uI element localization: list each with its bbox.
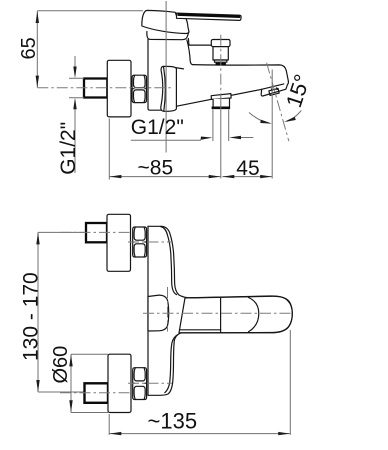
svg-text:~85: ~85 [138, 157, 174, 180]
body left edge (plan) [147, 226, 149, 395]
deck fill under knob [189, 45, 212, 65]
shoulder line at spout root [175, 68, 184, 69]
central boss (plan) [148, 295, 169, 331]
boss vertical centerline [167, 287, 169, 332]
pipe nipple (top view) [84, 79, 107, 98]
centerline bottom nipple axis [60, 392, 132, 394]
spout end face bottom / chin [261, 81, 288, 96]
step from handle corner to deck [187, 39, 190, 45]
dimension ~135 [108, 414, 110, 435]
handle inner vertical line [220, 297, 222, 332]
lever bar thick top edge [178, 15, 241, 17]
bottom union nut (plan) [133, 368, 147, 400]
svg-text:Ø60: Ø60 [50, 346, 72, 384]
knob / outlet centerline [220, 35, 222, 95]
faucet body fill (top view) [148, 39, 288, 110]
shower outlet fitting (top view) [211, 94, 231, 108]
svg-text:130 - 170: 130 - 170 [20, 272, 43, 361]
centerline 15 degrees [267, 63, 289, 142]
body outline bottom arm (plan) [148, 333, 181, 395]
deck top line under knob [189, 44, 212, 46]
aerator axis extension line [271, 70, 273, 179]
leader arrow up to nipple bottom (G1/2 left) [74, 109, 76, 173]
svg-text:65: 65 [18, 37, 40, 59]
wire: extension line top of 65 dim [37, 10, 143, 12]
angular arc left with arrowhead [249, 113, 270, 124]
body right edge S-profile [187, 40, 193, 65]
body column and arms fill (plan) [148, 226, 200, 395]
inner neck line bottom arm [165, 335, 178, 393]
body outline top arm (plan) [148, 226, 192, 298]
body left edge [148, 39, 164, 110]
diverter knob (top view) [211, 40, 230, 64]
top pipe nipple (plan) [86, 223, 107, 242]
dimension ~85 [108, 119, 110, 180]
dimension 130-170 vertical [37, 232, 39, 392]
inner neck line top arm [161, 227, 177, 295]
extension line top (nipple axis) [38, 231, 86, 233]
handle top edge [181, 296, 292, 333]
extension line bottom (nipple axis) [38, 391, 84, 393]
top union nut (plan) [133, 227, 147, 257]
bottom pipe nipple (plan, bold) [85, 383, 109, 403]
centerline bottom inlet axis [128, 382, 172, 384]
spout top edge [193, 65, 289, 82]
chin top inner line [262, 84, 284, 89]
spout underside [164, 89, 262, 110]
angular arc right with arrowhead [287, 111, 301, 122]
arrowhead 65 top [36, 11, 39, 23]
lever handle (plan view) [179, 296, 292, 333]
centerline top nipple axis [60, 231, 132, 233]
handle axis centerline [143, 312, 293, 314]
handle inner rounded end [249, 298, 259, 332]
handle inner bottom edge [180, 329, 221, 331]
aerator insert [269, 88, 279, 96]
arrowhead 65 bottom [36, 76, 39, 88]
dimension 65 vertical line [36, 11, 38, 88]
nipple top/bottom extension ticks [69, 78, 84, 97]
top wall flange (plan) [107, 214, 131, 271]
handle base (top view) [142, 10, 189, 33]
cartridge band on body [161, 66, 177, 111]
svg-text:45: 45 [236, 157, 259, 180]
svg-text:G1/2": G1/2" [131, 116, 184, 139]
dimension diameter 60 [70, 354, 72, 412]
lever bar (top view) [177, 13, 242, 20]
union nut (top view) [132, 75, 146, 102]
knob base ring (thick) [216, 63, 226, 66]
leader arrow down to nipple (G1/2 left) [74, 56, 76, 68]
dimension 45 [222, 176, 272, 178]
wall flange (top view) [107, 60, 131, 117]
bottom wall flange (plan) [108, 354, 131, 412]
G1/2 right arrow [240, 137, 253, 139]
svg-text:G1/2": G1/2" [57, 122, 80, 175]
svg-text:~135: ~135 [148, 409, 198, 434]
collar under handle [147, 32, 189, 40]
fitting extension lines [212, 110, 214, 142]
body vertical centerline (top view) [165, 1, 167, 153]
centerline top inlet axis [128, 241, 172, 243]
centerline inlet axis top view [37, 87, 172, 89]
